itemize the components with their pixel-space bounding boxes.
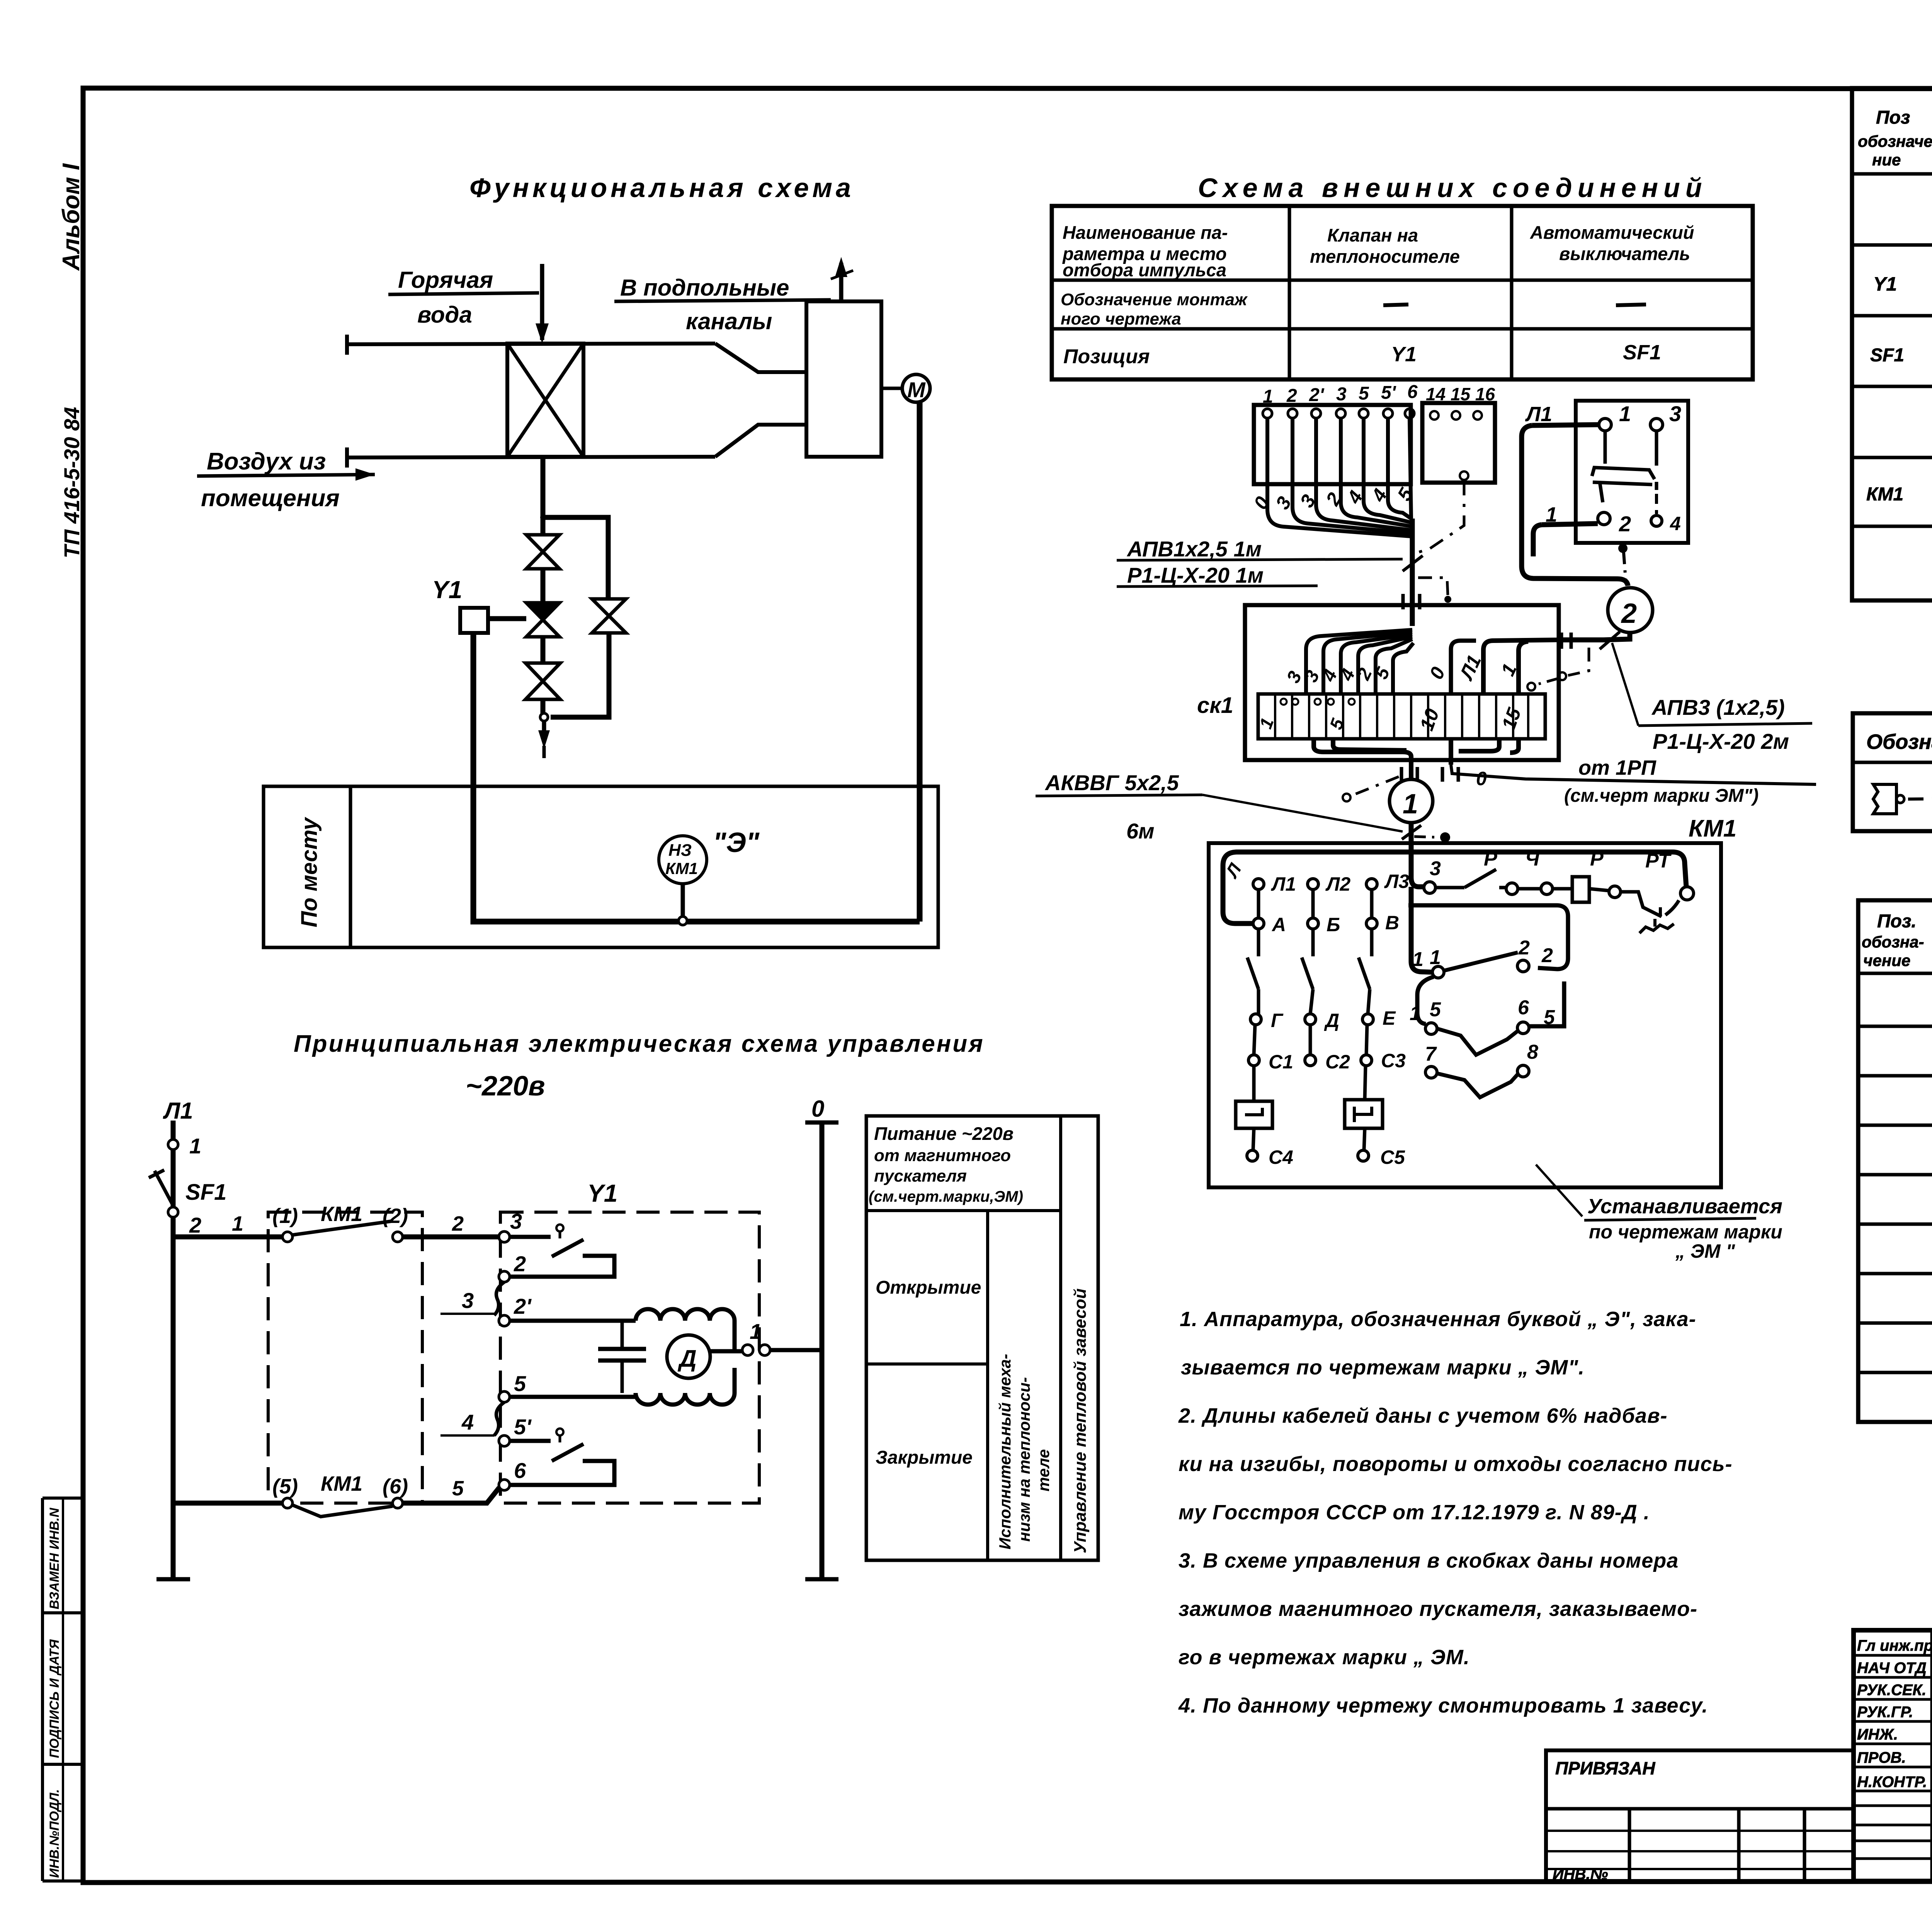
svg-text:С1: С1 bbox=[1269, 1051, 1293, 1073]
svg-text:Е: Е bbox=[1383, 1007, 1396, 1029]
motor D circle bbox=[667, 1335, 710, 1378]
svg-text:помещения: помещения bbox=[201, 485, 340, 512]
svg-text:зывается по чертежам марки „ Э: зывается по чертежам марки „ ЭМ". bbox=[1181, 1356, 1585, 1379]
materials table bottom right bbox=[1858, 900, 1932, 1422]
contact circle 1 bbox=[168, 1139, 178, 1150]
inner wire fan to strip bbox=[1410, 605, 1415, 626]
motor upper winding bbox=[636, 1309, 735, 1321]
drain junction + arrow bbox=[541, 699, 546, 714]
svg-text:3: 3 bbox=[1430, 857, 1441, 880]
parameters table bbox=[1052, 206, 1753, 379]
svg-text:Управление тепловой завесой: Управление тепловой завесой bbox=[1071, 1288, 1090, 1553]
По месту box bbox=[264, 786, 938, 947]
contact A B V bbox=[1253, 918, 1264, 929]
svg-text:(1): (1) bbox=[272, 1204, 298, 1228]
svg-text:вода: вода bbox=[417, 302, 472, 328]
svg-text:6м: 6м bbox=[1126, 819, 1155, 843]
svg-text:РТ: РТ bbox=[1645, 850, 1672, 872]
svg-text:1. Аппаратура, обозначенная бу: 1. Аппаратура, обозначенная буквой „ Э",… bbox=[1180, 1308, 1696, 1331]
svg-text:3: 3 bbox=[1336, 384, 1347, 405]
legend table bbox=[1853, 713, 1932, 831]
wire 2' to motor upper winding bbox=[510, 1319, 636, 1323]
svg-text:Д: Д bbox=[1324, 1010, 1339, 1031]
terminal strip bbox=[1258, 694, 1545, 739]
svg-text:3: 3 bbox=[1669, 401, 1681, 426]
svg-text:выключатель: выключатель bbox=[1559, 243, 1690, 264]
equipment table top right bbox=[1852, 88, 1932, 600]
motor M circle bbox=[902, 374, 930, 402]
wire L1 to SF1 bbox=[1532, 425, 1599, 425]
svg-text:обозна-: обозна- bbox=[1862, 933, 1924, 951]
svg-text:Y1: Y1 bbox=[432, 576, 462, 604]
svg-text:Клапан на: Клапан на bbox=[1327, 225, 1418, 245]
svg-text:Функциональная схема: Функциональная схема bbox=[469, 173, 854, 203]
svg-text:Воздух из: Воздух из bbox=[207, 448, 326, 475]
terminal 2' bbox=[499, 1315, 510, 1326]
svg-text:Р1-Ц-Х-20 2м: Р1-Ц-Х-20 2м bbox=[1653, 729, 1789, 753]
svg-text:Альбом I: Альбом I bbox=[58, 163, 85, 271]
junction box CK1 bbox=[1245, 605, 1559, 760]
dash-dot grounding right side bbox=[1568, 648, 1589, 675]
wire: hot water inlet arrow bbox=[540, 264, 544, 340]
wire bundle from terminals bbox=[1267, 418, 1411, 536]
bypass valve bbox=[592, 599, 626, 633]
svg-text:го в чертежах марки „ ЭМ.: го в чертежах марки „ ЭМ. bbox=[1179, 1646, 1470, 1669]
svg-text:Р1-Ц-Х-20 1м: Р1-Ц-Х-20 1м bbox=[1127, 563, 1264, 587]
svg-text:3: 3 bbox=[510, 1209, 522, 1233]
svg-text:М: М bbox=[907, 378, 926, 402]
svg-text:Гл инж.пр: Гл инж.пр bbox=[1857, 1637, 1932, 1654]
svg-text:ИНВ.№: ИНВ.№ bbox=[1553, 1866, 1608, 1883]
clamps at box bottom bbox=[1401, 767, 1458, 782]
wire SF1 loop to marker 2 bbox=[1522, 425, 1628, 586]
svg-text:Л2: Л2 bbox=[1325, 873, 1350, 895]
svg-text:АКВВГ 5х2,5: АКВВГ 5х2,5 bbox=[1044, 770, 1179, 795]
svg-text:SF1: SF1 bbox=[185, 1180, 226, 1205]
svg-text:Позиция: Позиция bbox=[1063, 345, 1150, 368]
svg-text:6: 6 bbox=[514, 1458, 526, 1483]
svg-text:8: 8 bbox=[1527, 1041, 1538, 1063]
svg-text:5: 5 bbox=[514, 1371, 526, 1396]
svg-text:РУК.ГР.: РУК.ГР. bbox=[1857, 1704, 1913, 1721]
svg-text:Д: Д bbox=[677, 1345, 697, 1372]
svg-text:5: 5 bbox=[1430, 998, 1441, 1021]
svg-text:НАЧ ОТД: НАЧ ОТД bbox=[1857, 1660, 1927, 1677]
svg-text:(см.черт марки ЭМ"): (см.черт марки ЭМ") bbox=[1564, 786, 1759, 806]
svg-text:2': 2' bbox=[514, 1294, 532, 1318]
terminal 6 bbox=[499, 1480, 510, 1490]
svg-text:Схема внешних соединений: Схема внешних соединений bbox=[1198, 173, 1708, 203]
svg-text:1: 1 bbox=[189, 1134, 201, 1158]
svg-text:Л1: Л1 bbox=[1525, 403, 1552, 426]
main contact blades bbox=[1257, 929, 1260, 956]
motor output terminal 1 bbox=[710, 1349, 743, 1354]
svg-text:ВЗАМЕН ИНВ.N: ВЗАМЕН ИНВ.N bbox=[47, 1507, 62, 1609]
svg-text:ки на изгибы, повороты и от: ки на изгибы, повороты и отходы согласно… bbox=[1179, 1452, 1733, 1476]
duct lower line bbox=[347, 457, 715, 457]
svg-text:4: 4 bbox=[1670, 513, 1681, 534]
svg-text:5': 5' bbox=[1381, 383, 1396, 403]
wire: phase bus bbox=[171, 1121, 176, 1579]
svg-text:14 15 16: 14 15 16 bbox=[1426, 384, 1495, 404]
svg-text:по чертежам марки: по чертежам марки bbox=[1589, 1221, 1782, 1243]
svg-text:ТП 416-5-30 84: ТП 416-5-30 84 bbox=[60, 407, 84, 558]
svg-text:Б: Б bbox=[1327, 914, 1340, 935]
aux terminal box 14 15 16 bbox=[1422, 403, 1495, 483]
svg-text:Горячая: Горячая bbox=[398, 267, 493, 293]
svg-text:Питание ~220в: Питание ~220в bbox=[874, 1123, 1014, 1144]
dashed box KM1 contacts bbox=[268, 1212, 422, 1503]
signature table columns bbox=[1930, 1630, 1932, 1881]
signature table rows bbox=[1854, 1654, 1932, 1657]
limit switch upper bbox=[510, 1235, 551, 1239]
svg-text:ного чертежа: ного чертежа bbox=[1061, 310, 1181, 328]
svg-text:1: 1 bbox=[1412, 948, 1423, 971]
svg-text:С2: С2 bbox=[1325, 1051, 1350, 1073]
svg-text:РУК.СЕК.: РУК.СЕК. bbox=[1857, 1682, 1926, 1699]
duct upper line bbox=[347, 344, 715, 344]
svg-text:6: 6 bbox=[1407, 382, 1418, 402]
svg-text:2: 2 bbox=[1541, 944, 1553, 967]
legend symbol: protective conductor core bbox=[1873, 784, 1896, 814]
svg-text:Обозначение монтаж: Обозначение монтаж bbox=[1061, 290, 1248, 309]
svg-text:(2): (2) bbox=[383, 1204, 408, 1228]
svg-text:3. В схеме управления в ск: 3. В схеме управления в скобках даны ном… bbox=[1179, 1549, 1679, 1572]
wire 4 jumper 5 to 5' bbox=[494, 1402, 504, 1435]
valve V3 bbox=[526, 663, 560, 699]
svg-text:АПВ1х2,5 1м: АПВ1х2,5 1м bbox=[1126, 537, 1262, 561]
svg-text:3: 3 bbox=[462, 1288, 474, 1313]
svg-text:2: 2 bbox=[452, 1212, 464, 1235]
svg-text:А: А bbox=[1271, 914, 1286, 935]
svg-text:"Э": "Э" bbox=[713, 827, 760, 858]
svg-text:7: 7 bbox=[1425, 1043, 1437, 1065]
svg-text:Автоматический: Автоматический bbox=[1530, 222, 1694, 243]
valve V2 (with actuator) bbox=[526, 603, 560, 637]
svg-text:КМ1: КМ1 bbox=[1866, 484, 1903, 505]
svg-text:Р: Р bbox=[1484, 848, 1497, 870]
svg-text:2. Длины кабелей даны с уч: 2. Длины кабелей даны с учетом 6% надбав… bbox=[1178, 1404, 1668, 1427]
pipe below heater bbox=[541, 457, 546, 535]
svg-text:АПВ3 (1х2,5): АПВ3 (1х2,5) bbox=[1651, 695, 1785, 719]
wire: motor drop line bbox=[917, 402, 923, 922]
cable marker 2 bbox=[1608, 588, 1653, 633]
switch bar bbox=[1592, 468, 1655, 479]
svg-text:2: 2 bbox=[514, 1252, 526, 1276]
wire: Y1 drop bbox=[473, 633, 920, 922]
capacitor C bbox=[621, 1321, 624, 1349]
note Устанавливается bbox=[1536, 1165, 1582, 1216]
svg-text:2: 2 bbox=[189, 1213, 201, 1237]
valve V1 bbox=[526, 535, 560, 569]
wire 3 jumper 2 to 2' bbox=[494, 1282, 504, 1315]
svg-text:5: 5 bbox=[452, 1477, 464, 1500]
svg-text:Л1: Л1 bbox=[163, 1098, 193, 1124]
svg-text:отбора импульса: отбора импульса bbox=[1063, 260, 1226, 280]
aux contacts 1-2 5-6 7-8 bbox=[1411, 887, 1432, 972]
limit switch lower bbox=[510, 1439, 551, 1443]
cable exit to KM1 with marker 1 bbox=[1389, 779, 1433, 823]
dash-dot SF1 bottom to marker 2 bbox=[1618, 544, 1628, 553]
heater crossed box bbox=[507, 344, 583, 457]
svg-text:0: 0 bbox=[1476, 768, 1487, 789]
wire Y1 to valve bbox=[488, 616, 526, 621]
magnetic starter KM1 box bbox=[1209, 843, 1721, 1187]
svg-text:С5: С5 bbox=[1380, 1146, 1405, 1168]
wire CK1 to marker 2 bbox=[1559, 633, 1630, 640]
svg-text:от магнитного: от магнитного bbox=[874, 1146, 1011, 1165]
svg-text:Н.КОНТР.: Н.КОНТР. bbox=[1857, 1774, 1927, 1791]
svg-text:Л3: Л3 bbox=[1384, 871, 1409, 892]
Питание annotation table bbox=[866, 1116, 1098, 1560]
svg-text:ние: ние bbox=[1872, 151, 1901, 169]
svg-text:2: 2 bbox=[1518, 937, 1530, 959]
dashed box Y1 bbox=[500, 1212, 759, 1503]
wire: bottom control line bbox=[173, 1501, 282, 1506]
svg-text:ИНВ.№ПОДЛ.: ИНВ.№ПОДЛ. bbox=[47, 1789, 62, 1878]
svg-text:НЗ: НЗ bbox=[668, 841, 692, 860]
svg-text:5': 5' bbox=[514, 1415, 532, 1439]
terminal 5 bbox=[499, 1391, 510, 1402]
terminal 5' bbox=[499, 1435, 510, 1446]
strip bottom exits to cable bbox=[1314, 739, 1411, 779]
svg-text:ИНЖ.: ИНЖ. bbox=[1857, 1726, 1898, 1743]
contact KM1 (5)-(6) bbox=[293, 1505, 393, 1517]
svg-text:Закрытие: Закрытие bbox=[876, 1447, 973, 1468]
actuator terminal box bbox=[1254, 405, 1411, 484]
svg-text:Y1: Y1 bbox=[1391, 343, 1417, 366]
ground dash-dot from aux box bbox=[1460, 471, 1468, 480]
svg-text:2: 2 bbox=[1621, 598, 1637, 629]
svg-text:Принципиальная электрическая: Принципиальная электрическая схема управ… bbox=[294, 1031, 985, 1057]
svg-text:SF1: SF1 bbox=[1623, 341, 1661, 364]
wire: top control line bbox=[173, 1235, 282, 1240]
contact KM1 (1)-(2) bbox=[293, 1221, 393, 1235]
svg-text:4: 4 bbox=[461, 1410, 474, 1434]
svg-text:Ч: Ч bbox=[1525, 848, 1540, 870]
svg-text:ск1: ск1 bbox=[1197, 693, 1233, 718]
cable drop to CK1 bbox=[1410, 519, 1415, 605]
svg-text:По месту: По месту bbox=[297, 816, 322, 927]
svg-text:теле: теле bbox=[1034, 1449, 1053, 1492]
svg-text:1: 1 bbox=[1619, 401, 1631, 426]
title block outline bbox=[1854, 1630, 1932, 1881]
lamp HS KM1 bbox=[659, 836, 707, 884]
svg-text:Устанавливается: Устанавливается bbox=[1587, 1195, 1782, 1218]
contact G D E bbox=[1250, 1014, 1261, 1025]
svg-text:пускателя: пускателя bbox=[874, 1167, 967, 1185]
svg-text:теплоносителе: теплоносителе bbox=[1310, 246, 1460, 267]
svg-text:ПОДПИСЬ И ДАТЯ: ПОДПИСЬ И ДАТЯ bbox=[47, 1639, 62, 1758]
svg-text:2: 2 bbox=[1286, 386, 1297, 406]
svg-text:Открытие: Открытие bbox=[876, 1277, 981, 1298]
svg-text:(5): (5) bbox=[272, 1475, 298, 1498]
svg-text:1: 1 bbox=[1410, 1002, 1421, 1025]
svg-text:от 1РП: от 1РП bbox=[1578, 756, 1656, 779]
outlet arrow up bbox=[839, 263, 844, 301]
svg-text:каналы: каналы bbox=[686, 308, 772, 334]
motor lower winding bbox=[636, 1393, 735, 1405]
actuator Y1 box bbox=[460, 608, 488, 633]
svg-text:(см.черт.марки,ЭМ): (см.черт.марки,ЭМ) bbox=[869, 1188, 1023, 1205]
svg-text:С4: С4 bbox=[1269, 1146, 1293, 1168]
svg-text:2': 2' bbox=[1309, 385, 1325, 405]
svg-text:„ ЭМ ": „ ЭМ " bbox=[1675, 1240, 1735, 1262]
main bus inside KM1 bbox=[1223, 846, 1411, 923]
svg-text:1: 1 bbox=[1403, 789, 1418, 820]
svg-text:6: 6 bbox=[1518, 997, 1529, 1019]
svg-text:Y1: Y1 bbox=[1873, 273, 1897, 295]
svg-text:му Госстроя СССР от 17.12.: му Госстроя СССР от 17.12.1979 г. N 89-Д… bbox=[1179, 1501, 1650, 1524]
breaker SF1 box bbox=[1576, 401, 1688, 543]
svg-text:~220в: ~220в bbox=[466, 1071, 545, 1102]
svg-text:В: В bbox=[1385, 912, 1399, 934]
svg-text:КМ1: КМ1 bbox=[1689, 815, 1736, 842]
terminal 2 bbox=[499, 1271, 510, 1282]
svg-text:SF1: SF1 bbox=[1870, 345, 1904, 366]
svg-text:1: 1 bbox=[1263, 386, 1273, 407]
svg-text:Поз.: Поз. bbox=[1877, 911, 1917, 932]
svg-text:1: 1 bbox=[750, 1319, 762, 1344]
svg-text:ПРОВ.: ПРОВ. bbox=[1857, 1749, 1906, 1766]
svg-text:В подпольные: В подпольные bbox=[620, 275, 789, 301]
svg-text:зажимов магнитного пускателя: зажимов магнитного пускателя, заказываем… bbox=[1179, 1597, 1697, 1621]
svg-text:низм на теплоноси-: низм на теплоноси- bbox=[1015, 1377, 1033, 1542]
svg-text:4. По данному чертежу смонт: 4. По данному чертежу смонтировать 1 зав… bbox=[1178, 1694, 1708, 1717]
svg-text:Поз: Поз bbox=[1876, 107, 1910, 128]
terminal circles bbox=[1263, 409, 1272, 418]
svg-text:Y1: Y1 bbox=[587, 1179, 617, 1207]
svg-text:Исполнительный меха-: Исполнительный меха- bbox=[996, 1354, 1014, 1549]
breaker SF1 bbox=[155, 1171, 173, 1206]
svg-text:С3: С3 bbox=[1381, 1050, 1406, 1071]
svg-text:ПРИВЯЗАН: ПРИВЯЗАН bbox=[1555, 1758, 1655, 1778]
left attachment boxes column bbox=[43, 1497, 83, 1500]
coil boxes bbox=[1252, 1066, 1256, 1101]
svg-text:5: 5 bbox=[1359, 383, 1369, 404]
svg-text:Л1: Л1 bbox=[1271, 873, 1296, 895]
svg-text:КМ1: КМ1 bbox=[321, 1202, 362, 1226]
contact L1 L2 L3 bbox=[1253, 879, 1264, 889]
svg-text:(6): (6) bbox=[383, 1475, 408, 1498]
fan unit box bbox=[806, 301, 881, 457]
svg-text:КМ1: КМ1 bbox=[665, 859, 698, 878]
svg-text:1: 1 bbox=[232, 1212, 243, 1235]
svg-text:0: 0 bbox=[811, 1096, 824, 1122]
contact C1 C2 C3 bbox=[1248, 1055, 1259, 1066]
terminal 3 bbox=[499, 1231, 510, 1242]
svg-text:2: 2 bbox=[1619, 512, 1631, 536]
duct nozzle bbox=[715, 344, 806, 372]
svg-text:обозначе: обозначе bbox=[1858, 132, 1932, 150]
cable clamp above CK1 bbox=[1403, 594, 1420, 609]
revision block ПРИВЯЗАН bbox=[1546, 1750, 1854, 1881]
svg-text:чение: чение bbox=[1863, 951, 1910, 969]
svg-text:Г: Г bbox=[1271, 1010, 1284, 1031]
bypass loop top bbox=[543, 517, 608, 598]
svg-text:Р: Р bbox=[1590, 848, 1604, 870]
svg-text:Наименование па-: Наименование па- bbox=[1063, 222, 1228, 243]
svg-text:Обозначение: Обозначение bbox=[1866, 730, 1932, 753]
svg-text:КМ1: КМ1 bbox=[321, 1472, 362, 1495]
